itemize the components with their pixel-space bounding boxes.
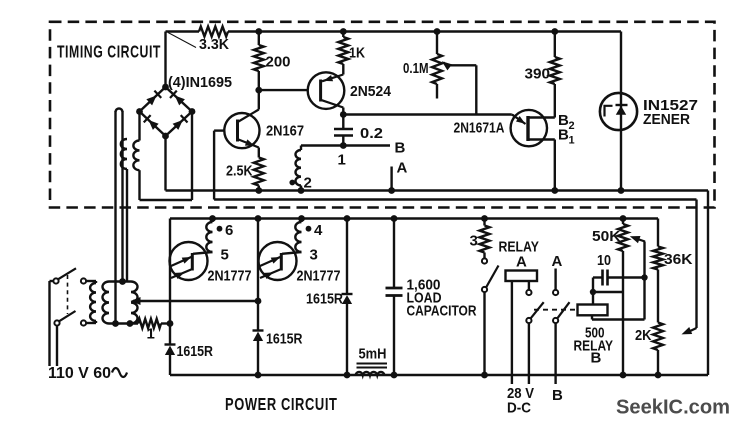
svg-text:6: 6 [225, 222, 233, 239]
svg-text:2: 2 [304, 175, 312, 192]
svg-text:2N1777: 2N1777 [297, 268, 341, 285]
svg-text:D-C: D-C [507, 400, 531, 417]
svg-text:A: A [516, 254, 527, 271]
svg-text:B: B [395, 140, 406, 157]
svg-text:1615R: 1615R [177, 343, 214, 360]
svg-text:B: B [591, 350, 602, 367]
svg-text:POWER CIRCUIT: POWER CIRCUIT [225, 394, 338, 414]
svg-text:1: 1 [338, 152, 346, 169]
svg-text:1K: 1K [349, 45, 365, 62]
svg-text:ZENER: ZENER [643, 111, 690, 128]
svg-text:1615R: 1615R [306, 291, 343, 308]
svg-text:1615R: 1615R [266, 331, 303, 348]
svg-text:0.2: 0.2 [360, 125, 383, 142]
svg-text:50K: 50K [592, 228, 621, 245]
svg-text:A: A [397, 160, 408, 177]
svg-text:1: 1 [147, 326, 155, 343]
svg-text:A: A [552, 253, 563, 270]
svg-text:2N1671A: 2N1671A [454, 120, 505, 137]
svg-text:3: 3 [310, 247, 318, 264]
svg-text:1: 1 [569, 135, 575, 147]
svg-text:0.1M: 0.1M [403, 60, 429, 77]
svg-text:390: 390 [525, 66, 551, 83]
svg-text:5: 5 [221, 247, 229, 264]
svg-text:36K: 36K [664, 251, 693, 268]
svg-text:B: B [558, 127, 569, 144]
svg-text:SeekIC.com: SeekIC.com [616, 397, 730, 419]
svg-text:CAPACITOR: CAPACITOR [407, 303, 477, 320]
svg-text:4: 4 [314, 222, 323, 239]
svg-text:10: 10 [597, 252, 611, 269]
svg-text:TIMING CIRCUIT: TIMING CIRCUIT [57, 42, 161, 62]
svg-text:B: B [552, 387, 563, 404]
svg-text:2.5K: 2.5K [226, 163, 253, 180]
svg-text:(4)IN1695: (4)IN1695 [168, 74, 232, 91]
svg-text:2N1777: 2N1777 [208, 268, 252, 285]
svg-text:2K: 2K [635, 327, 652, 344]
svg-text:5mH: 5mH [359, 346, 387, 363]
svg-text:200: 200 [266, 54, 291, 71]
svg-text:2N167: 2N167 [266, 123, 304, 140]
svg-text:2N524: 2N524 [350, 83, 392, 100]
svg-text:3: 3 [470, 233, 478, 250]
svg-text:110 V 60: 110 V 60 [48, 365, 111, 382]
svg-text:2: 2 [569, 120, 575, 132]
svg-text:3.3K: 3.3K [199, 36, 229, 53]
